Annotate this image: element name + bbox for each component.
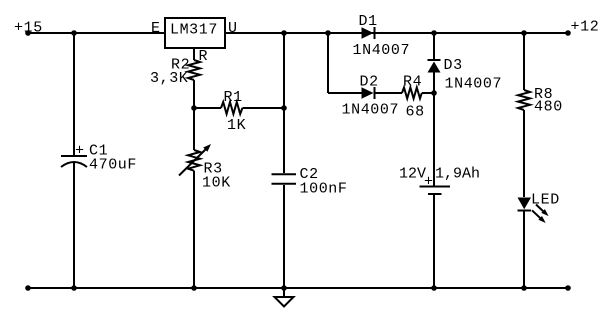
svg-text:R4: R4 bbox=[403, 74, 422, 91]
svg-text:100nF: 100nF bbox=[300, 181, 348, 198]
wire LM317 R pin to R2 bbox=[193, 48, 195, 60]
svg-text:10K: 10K bbox=[202, 175, 231, 192]
svg-text:D3: D3 bbox=[444, 57, 463, 74]
wire D2 branch vertical bbox=[327, 33, 329, 93]
wire R2 to R1 node bbox=[193, 80, 195, 150]
capacitor C2 bbox=[272, 174, 297, 184]
svg-text:1N4007: 1N4007 bbox=[445, 76, 503, 93]
node C1 bottom junction bbox=[71, 285, 77, 291]
svg-text:LM317: LM317 bbox=[170, 22, 218, 39]
wire C1 branch top bbox=[73, 33, 75, 155]
node +15 terminal bbox=[25, 30, 31, 36]
svg-text:1N4007: 1N4007 bbox=[353, 42, 411, 59]
svg-text:+: + bbox=[424, 174, 434, 191]
svg-text:D1: D1 bbox=[359, 13, 378, 30]
svg-text:+: + bbox=[75, 143, 85, 160]
wire D2 branch to diode bbox=[328, 92, 362, 94]
wire C1 branch bottom bbox=[73, 162, 75, 288]
svg-text:D2: D2 bbox=[360, 74, 379, 91]
wire bottom rail bbox=[28, 287, 568, 289]
svg-text:+15: +15 bbox=[14, 20, 43, 37]
svg-text:1K: 1K bbox=[227, 117, 246, 134]
svg-text:R1: R1 bbox=[224, 89, 243, 106]
diode D1 bbox=[362, 27, 375, 39]
wire top rail left segment bbox=[28, 32, 165, 34]
node R8 top junction bbox=[521, 30, 527, 36]
wire R4 to node bbox=[422, 92, 434, 94]
resistor R3 bbox=[188, 150, 200, 171]
wire R8 to LED bbox=[523, 110, 525, 197]
ground bbox=[275, 297, 294, 307]
svg-text:470uF: 470uF bbox=[89, 157, 137, 174]
wire battery to bottom rail bbox=[433, 194, 435, 288]
svg-text:R: R bbox=[199, 48, 209, 65]
node D3 top junction bbox=[431, 30, 437, 36]
wire R3 to bottom rail bbox=[193, 171, 195, 288]
svg-text:U: U bbox=[228, 20, 238, 37]
svg-text:E: E bbox=[151, 20, 161, 37]
wire top rail right segment bbox=[225, 32, 568, 34]
node R4 D3 junction bbox=[431, 90, 437, 96]
svg-text:480: 480 bbox=[534, 99, 563, 116]
svg-text:1N4007: 1N4007 bbox=[342, 102, 400, 119]
node D2 branch junction bbox=[325, 30, 331, 36]
resistor R4 bbox=[402, 88, 422, 99]
wire D3 to node bbox=[433, 73, 435, 94]
wire D2 to R4 bbox=[376, 92, 403, 94]
wire R1 left lead bbox=[194, 107, 221, 109]
regulator U1 LM317 bbox=[165, 18, 225, 48]
wire C2 branch top bbox=[283, 33, 285, 173]
node bottom right terminal bbox=[565, 285, 571, 291]
wire D3 branch top bbox=[433, 33, 435, 60]
wire R8 branch top bbox=[523, 33, 525, 90]
svg-text:LED: LED bbox=[531, 192, 560, 209]
wire C2 branch bottom bbox=[283, 185, 285, 288]
node R1 left junction bbox=[191, 105, 197, 111]
LED bbox=[518, 198, 549, 224]
svg-text:12V 1,9Ah: 12V 1,9Ah bbox=[399, 166, 480, 183]
svg-text:+12: +12 bbox=[571, 19, 600, 36]
diode D2 bbox=[362, 87, 375, 99]
battery BT1 12V 1,9Ah plates bbox=[420, 187, 451, 195]
node C1 top junction bbox=[71, 30, 77, 36]
potentiometer arrow R3 bbox=[179, 144, 211, 176]
wire node to battery bbox=[433, 93, 435, 186]
node LED bottom junction bbox=[521, 285, 527, 291]
wire R1 right lead bbox=[242, 107, 284, 109]
node battery bottom junction bbox=[431, 285, 437, 291]
resistor R2 bbox=[188, 60, 200, 80]
node R1 right junction bbox=[281, 105, 287, 111]
node bottom left terminal bbox=[25, 285, 31, 291]
wire ground stem bbox=[283, 288, 285, 297]
capacitor C1 bbox=[61, 156, 87, 167]
wire LED to bottom rail bbox=[523, 211, 525, 289]
node +12 terminal bbox=[565, 30, 571, 36]
node ground junction bbox=[281, 285, 287, 291]
node R3 bottom junction bbox=[191, 285, 197, 291]
diode D3 bbox=[428, 60, 441, 73]
svg-text:3,3K: 3,3K bbox=[150, 70, 188, 87]
node C2 top junction bbox=[281, 30, 287, 36]
resistor R8 bbox=[518, 90, 530, 110]
svg-text:68: 68 bbox=[406, 104, 425, 121]
resistor R1 bbox=[221, 102, 242, 114]
